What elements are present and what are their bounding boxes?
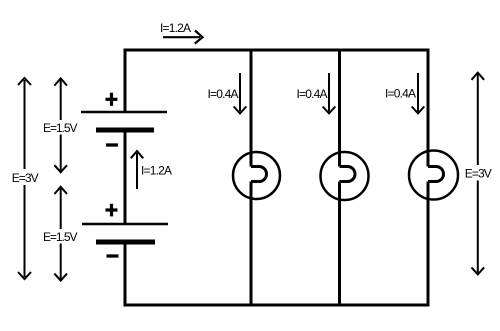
wire branch 1 lower: [250, 182, 253, 307]
label E=1.5V upper: [41, 120, 79, 135]
lamp L3: [409, 151, 458, 200]
current arrow I=1.2A top: [163, 31, 203, 44]
wire left lower (battery B2 to bottom rail): [124, 242, 127, 307]
svg-text:E=3V: E=3V: [12, 171, 39, 185]
wire branch 2 lower: [338, 182, 341, 307]
current arrow I=0.4A branch 2: [323, 73, 336, 113]
svg-text:I=0.4A: I=0.4A: [297, 87, 328, 101]
lamp L2: [321, 152, 369, 200]
label E=1.5V lower: [41, 229, 79, 244]
voltage arrow E=3V right (double-headed): [472, 73, 485, 275]
label E=3V right: [463, 165, 494, 181]
battery B1: [81, 112, 167, 130]
current arrow I=0.4A branch 3: [412, 73, 425, 113]
battery B2 plus label: [106, 204, 118, 217]
current arrow I=0.4A branch 1: [234, 73, 247, 113]
battery B1 plus label: [106, 93, 118, 106]
svg-text:E=3V: E=3V: [465, 167, 492, 181]
wire bottom: [124, 304, 430, 307]
wire left middle (battery B1 to battery B2): [124, 130, 127, 224]
voltage arrow E=1.5V upper (double-headed): [54, 78, 67, 172]
lamp L1: [233, 152, 280, 199]
voltage arrow E=1.5V lower (double-headed): [54, 187, 67, 281]
svg-text:E=1.5V: E=1.5V: [43, 121, 78, 135]
voltage arrow E=3V left (double-headed): [18, 78, 31, 279]
svg-text:E=1.5V: E=1.5V: [43, 230, 78, 244]
wire left upper (top rail to battery B1): [124, 49, 127, 113]
battery B2 minus label: [107, 254, 119, 257]
wire right lower (lamp L3 to bottom rail): [427, 182, 430, 307]
battery B1 minus label: [106, 143, 118, 146]
current arrow I=1.2A internal (up): [131, 151, 143, 189]
svg-text:I=1.2A: I=1.2A: [141, 164, 172, 178]
label E=3V left: [9, 169, 42, 185]
wire branch 2 upper: [338, 49, 341, 167]
svg-text:I=1.2A: I=1.2A: [160, 21, 191, 35]
wire top: [124, 49, 430, 52]
battery B2: [82, 224, 168, 242]
svg-text:I=0.4A: I=0.4A: [385, 87, 416, 101]
wire right upper (top rail to lamp L3): [427, 49, 430, 167]
svg-text:I=0.4A: I=0.4A: [208, 87, 239, 101]
wire branch 1 upper: [250, 49, 253, 167]
